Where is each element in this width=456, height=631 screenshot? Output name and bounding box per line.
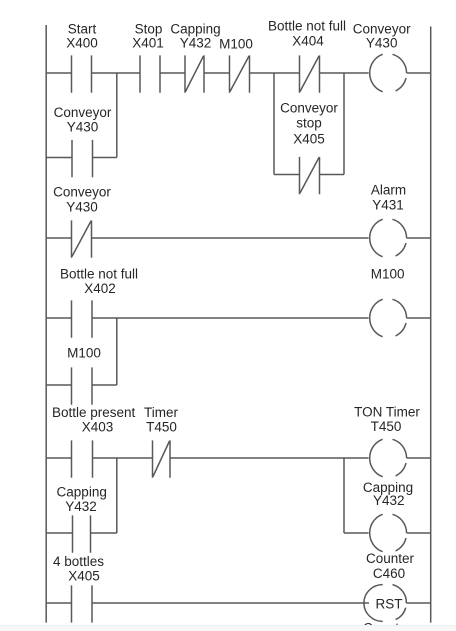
wire X405 contact to right branch bbox=[320, 174, 345, 176]
contact T450 (Timer, NC) bbox=[153, 440, 171, 477]
svg-text:Start: Start bbox=[68, 22, 97, 37]
wire Y432 seal to branch bbox=[91, 532, 117, 534]
svg-text:M100: M100 bbox=[371, 267, 405, 282]
contact X400 (Start, NO) bbox=[72, 55, 92, 92]
contact Y432 seal (Capping, NO) bbox=[73, 515, 91, 552]
svg-text:M100: M100 bbox=[219, 37, 253, 52]
wire branch to X405 contact bbox=[274, 174, 300, 176]
contact X404 (Bottle not full, NC) bbox=[300, 55, 320, 92]
svg-text:Timer: Timer bbox=[144, 405, 178, 420]
wire coil C460 to rail bbox=[406, 602, 430, 604]
branch vertical right for X405 parallel bbox=[343, 73, 345, 175]
svg-text:Bottle not full: Bottle not full bbox=[268, 19, 346, 34]
branch vertical for Y430 seal-in bbox=[116, 73, 118, 158]
contact Y432 (Capping, NC) bbox=[185, 55, 204, 92]
svg-text:Y431: Y431 bbox=[372, 198, 404, 213]
wire T450 to coil T450 bbox=[170, 457, 369, 459]
svg-text:Capping: Capping bbox=[57, 485, 107, 500]
wire rung1 rail to X400 bbox=[46, 72, 71, 74]
coil Y431 (Alarm) bbox=[370, 219, 407, 256]
svg-text:Y430: Y430 bbox=[67, 120, 99, 135]
wire coil M100 to rail bbox=[407, 317, 431, 319]
wire X404 to coil Y430 bbox=[320, 72, 369, 74]
svg-text:Y430: Y430 bbox=[66, 200, 98, 215]
svg-text:X405: X405 bbox=[293, 132, 325, 147]
svg-text:Conveyor: Conveyor bbox=[54, 105, 112, 120]
branch vertical for Y432 seal-in bbox=[116, 458, 118, 533]
wire M100 seal to branch bbox=[92, 384, 117, 386]
branch vertical left for X405 parallel bbox=[273, 73, 275, 175]
wire M100 to X404 (through branch node) bbox=[250, 72, 300, 74]
svg-text:M100: M100 bbox=[67, 346, 101, 361]
wire coil Y430 to rail bbox=[407, 72, 431, 74]
wire rail to M100 seal contact bbox=[46, 384, 71, 386]
contact X403 (Bottle present, NO) bbox=[72, 440, 93, 477]
svg-text:X403: X403 bbox=[82, 420, 114, 435]
svg-text:X402: X402 bbox=[84, 281, 116, 296]
svg-text:X400: X400 bbox=[66, 36, 98, 51]
right power rail bbox=[430, 27, 432, 623]
left power rail bbox=[45, 25, 47, 623]
wire coil Y431 to rail bbox=[407, 237, 431, 239]
wire coil Y432 to rail bbox=[407, 532, 431, 534]
wire coil T450 to rail bbox=[407, 457, 431, 459]
branch vertical for coil Y432 bbox=[343, 458, 345, 533]
contact Y430 seal (Conveyor, NO) bbox=[72, 140, 93, 177]
contact X401 (Stop, NO) bbox=[140, 55, 160, 92]
bottom page band bbox=[0, 625, 456, 631]
wire X405 to coil C460 bbox=[92, 602, 369, 604]
wire X402 to coil M100 bbox=[92, 317, 369, 319]
contact M100 seal (NO) bbox=[72, 367, 93, 404]
wire rung3 rail to X402 bbox=[46, 317, 71, 319]
svg-text:X401: X401 bbox=[132, 36, 164, 51]
svg-text:Y432: Y432 bbox=[65, 499, 97, 514]
svg-text:X405: X405 bbox=[68, 569, 100, 584]
wire branch to coil Y432 bbox=[344, 532, 369, 534]
contact M100 (NC) bbox=[230, 55, 250, 92]
contact X405 (Conveyor stop, NC) bbox=[300, 157, 320, 194]
svg-text:T450: T450 bbox=[371, 419, 402, 434]
coil C460 RST (Counter) bbox=[364, 585, 406, 622]
wire rung2 rail to Y430 contact bbox=[46, 237, 71, 239]
svg-text:C460: C460 bbox=[373, 566, 405, 581]
svg-text:Conveyor: Conveyor bbox=[53, 185, 111, 200]
svg-text:TON Timer: TON Timer bbox=[354, 405, 420, 420]
svg-text:stop: stop bbox=[296, 116, 322, 131]
svg-text:Capping: Capping bbox=[170, 22, 220, 37]
svg-text:T450: T450 bbox=[146, 420, 177, 435]
svg-text:4 bottles: 4 bottles bbox=[53, 554, 104, 569]
svg-text:Alarm: Alarm bbox=[371, 183, 406, 198]
svg-text:Y432: Y432 bbox=[180, 36, 212, 51]
svg-text:Conveyor: Conveyor bbox=[353, 22, 411, 37]
svg-text:Bottle not full: Bottle not full bbox=[60, 267, 138, 282]
coil Y430 (Conveyor) bbox=[370, 54, 407, 91]
contact Y430 (Conveyor, NC) bbox=[72, 220, 92, 257]
branch vertical for M100 seal-in bbox=[116, 318, 118, 385]
wire X400 to X401 bbox=[92, 72, 141, 74]
wire rail to Y432 seal contact bbox=[46, 532, 72, 534]
svg-text:Bottle present: Bottle present bbox=[52, 405, 136, 420]
wire Y430 contact to coil Y431 bbox=[92, 237, 369, 239]
wire rail to Y430 seal contact bbox=[46, 157, 72, 159]
svg-text:RST: RST bbox=[376, 596, 403, 611]
svg-text:Stop: Stop bbox=[135, 22, 163, 37]
contact X405 (4 bottles, NO) bbox=[72, 585, 93, 622]
coil M100 bbox=[370, 299, 407, 336]
wire rung5 rail to X405 bbox=[46, 602, 71, 604]
contact X402 (Bottle not full, NO) bbox=[72, 300, 93, 337]
wire Y430 seal to branch bbox=[93, 157, 117, 159]
coil Y432 (Capping) bbox=[370, 514, 407, 551]
svg-text:X404: X404 bbox=[292, 34, 324, 49]
svg-text:Y430: Y430 bbox=[366, 36, 398, 51]
wire rung4 rail to X403 bbox=[46, 457, 71, 459]
wire X401 to Y432 bbox=[160, 72, 185, 74]
coil T450 (TON Timer) bbox=[370, 439, 407, 476]
svg-text:Y432: Y432 bbox=[373, 493, 405, 508]
svg-text:Counter: Counter bbox=[366, 551, 415, 566]
wire Y432 to M100 bbox=[204, 72, 230, 74]
wire X403 to T450 bbox=[93, 457, 153, 459]
svg-text:Conveyor: Conveyor bbox=[280, 101, 338, 116]
